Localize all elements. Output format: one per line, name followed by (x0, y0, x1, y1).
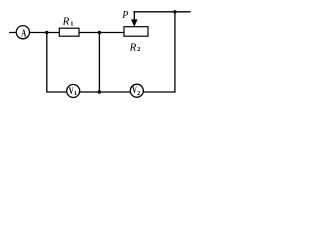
svg-text:1: 1 (74, 91, 77, 97)
rheostat R2 body (124, 27, 148, 37)
svg-text:R: R (62, 16, 70, 28)
node: junction between R1 and R2 (98, 31, 101, 34)
wire: middle branch vertical (98, 33, 100, 93)
wire: left stub to ammeter and top rail to R1 (9, 32, 60, 34)
wire: bottom rail (46, 91, 175, 93)
ammeter A1 circle (16, 26, 29, 39)
svg-text:A: A (21, 28, 27, 39)
node: top-right T junction (173, 10, 176, 13)
svg-text:2: 2 (137, 91, 140, 97)
wire: right rail vertical (174, 12, 176, 93)
node: junction after ammeter (45, 31, 48, 34)
wire: wiper vertical drop (133, 11, 135, 21)
wire: left branch vertical (46, 33, 48, 93)
resistor R1 body (59, 28, 79, 36)
svg-text:P: P (121, 10, 128, 21)
node: bottom junction between V1 and V2 (98, 90, 101, 93)
arrowhead of rheostat wiper (131, 19, 138, 26)
svg-text:1: 1 (70, 20, 73, 27)
voltmeter V1 circle (67, 85, 80, 98)
svg-text:2: 2 (137, 46, 140, 53)
wire: wiper top wire to right edge (134, 11, 191, 13)
voltmeter V2 circle (130, 84, 143, 97)
svg-text:R: R (129, 41, 137, 53)
wire: R1 to R2 top rail (79, 32, 124, 34)
